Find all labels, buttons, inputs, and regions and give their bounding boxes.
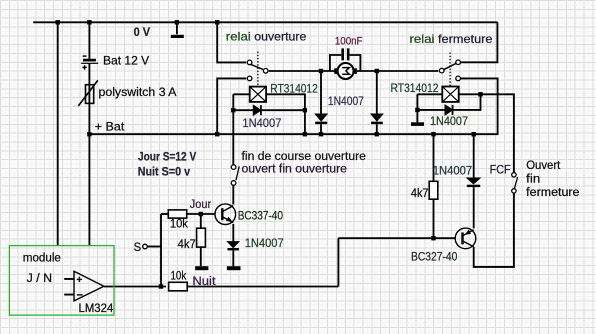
svg-text:RT314012: RT314012	[391, 81, 439, 95]
relay contact fermeture (switch)	[439, 60, 460, 81]
svg-text:Nuit S=0 v: Nuit S=0 v	[138, 165, 191, 179]
junction motor line / diode 1 branch	[319, 69, 323, 73]
junction BC337 base / 4k7	[199, 212, 203, 216]
wire riser to 10k Jour	[161, 213, 168, 215]
svg-text:1N4007: 1N4007	[245, 236, 284, 250]
module box	[9, 246, 114, 316]
svg-text:10k: 10k	[171, 269, 187, 283]
wire Nuit to base riser	[337, 238, 339, 286]
op-amp U1 LM324	[74, 271, 104, 301]
wire right coil left pin to ground	[417, 94, 442, 123]
wire right flyback diode	[417, 94, 480, 110]
battery Bat 12 V	[81, 56, 98, 70]
diode 1N4007 right flyback	[445, 105, 453, 115]
junction +Bat rail / battery branch	[87, 132, 91, 136]
wire right coil right pin to FCF	[459, 94, 514, 172]
polyswitch R (PTC)	[78, 80, 97, 106]
svg-text:relaiouverture: relaiouverture	[226, 30, 307, 44]
wire motor diode 2 to rail	[376, 124, 378, 134]
svg-text:+ Bat: + Bat	[95, 119, 125, 133]
junction +Bat rail / BC327 diode	[472, 132, 476, 136]
wire 4k7 left to ground	[200, 247, 202, 266]
svg-text:10k: 10k	[170, 217, 189, 231]
wire left flyback diode	[233, 109, 305, 111]
svg-text:polyswitch 3 A: polyswitch 3 A	[99, 85, 178, 99]
svg-text:1N4007: 1N4007	[433, 164, 473, 178]
wire 0V top rail	[33, 21, 497, 23]
wire fin de course switch to BC337 collector	[232, 186, 234, 205]
junction motor line / diode 2 branch	[375, 69, 379, 73]
diode 1N4007 BC327	[467, 178, 480, 186]
wire BC337 emitter to diode	[232, 224, 234, 242]
svg-text:−: −	[77, 289, 83, 301]
wire 100nF branch	[330, 55, 361, 71]
wire left coil left pin down through fin de course switch	[233, 94, 249, 164]
dashed actuation line right relay	[449, 53, 451, 87]
wire +Bat to BC327 diode	[473, 134, 475, 178]
relay coil RT314012 left	[250, 87, 266, 102]
svg-text:4k7: 4k7	[178, 237, 196, 251]
terminal S	[143, 244, 148, 249]
svg-text:Ouvert: Ouvert	[526, 158, 561, 172]
junction coil L2 right pin / diode cathode riser	[478, 92, 482, 96]
svg-text:+: +	[77, 275, 83, 286]
wire S to riser	[147, 246, 161, 248]
junction +Bat rail / coil L1 right pin	[303, 132, 307, 136]
svg-text:S: S	[134, 240, 142, 254]
wire +Bat rail	[89, 78, 497, 134]
svg-text:ouvert fin ouverture: ouvert fin ouverture	[242, 162, 348, 176]
junction +Bat rail / NC contact drop	[215, 132, 219, 136]
transistor BC327-40	[455, 228, 476, 249]
ground BC337	[227, 266, 241, 270]
junction BC327 base / 4k7 pullup	[431, 236, 435, 240]
diode 1N4007 left flyback	[253, 105, 261, 115]
junction 0V rail / module pin	[56, 20, 60, 24]
wire 4k7 left drop	[200, 214, 202, 228]
junction 0V rail / relai ouverture feed	[215, 20, 219, 24]
wire motor line (switch pivot to pivot)	[269, 70, 439, 72]
diode 1N4007 motor left	[315, 114, 327, 123]
svg-text:Jour S=12 V: Jour S=12 V	[138, 149, 197, 163]
dashed actuation line left relay	[257, 52, 259, 87]
svg-text:J / N: J / N	[27, 271, 52, 285]
svg-text:LM324: LM324	[79, 301, 114, 315]
wire diode to BC327 emitter	[473, 187, 475, 228]
junction coil L1 left pin / flyback diode anode	[231, 108, 235, 112]
svg-text:Nuit: Nuit	[192, 274, 216, 288]
relay contact ouverture (switch)	[247, 60, 268, 81]
resistor 4k7 left	[197, 228, 206, 247]
junction 0V rail / battery branch	[87, 20, 91, 24]
wire 0V rail to module left pin	[57, 22, 59, 245]
resistor 4k7 right	[429, 181, 438, 199]
wire BC337 diode to ground	[232, 250, 234, 266]
capacitor 100nF	[343, 48, 349, 60]
wire rail to relai ouverture top contact	[217, 22, 246, 62]
junction coil L2 left pin / flyback diode anode	[415, 108, 419, 112]
junction +Bat rail / 4k7 pullup	[431, 132, 435, 136]
relay coil RT314012 right	[442, 87, 458, 102]
switch fin de course ouverture	[231, 165, 239, 186]
transistor BC337-40	[215, 204, 236, 225]
junction +Bat rail / motor diode 2	[375, 132, 379, 136]
svg-text:FCF: FCF	[490, 162, 511, 176]
svg-text:relaifermeture: relaifermeture	[410, 32, 493, 46]
junction 0V rail / ground stub	[175, 20, 179, 24]
resistor 10k Jour	[168, 210, 186, 218]
wire motor diode 1 drop	[320, 71, 322, 114]
ground 4k7 left	[195, 266, 208, 270]
switch ouvert fin fermeture FCF	[512, 173, 518, 193]
svg-text:1N4007: 1N4007	[328, 94, 364, 108]
wire opamp input stubs	[64, 279, 74, 295]
wire relai ouverture bottom contact to +Bat rail	[217, 78, 246, 134]
ground right relay	[411, 122, 424, 126]
wire motor diode 1 to rail	[320, 124, 322, 134]
wire ground stub top	[176, 22, 178, 34]
wire rail to relai fermeture top contact	[460, 22, 497, 62]
svg-text:module: module	[23, 250, 61, 264]
wire motor diode 2 drop	[376, 71, 378, 114]
diode 1N4007 motor right	[371, 114, 383, 123]
wire 4k7 to base node	[433, 199, 435, 238]
svg-text:4k7: 4k7	[411, 186, 429, 200]
wire S riser	[160, 214, 162, 287]
junction opamp out / S riser	[159, 284, 163, 288]
svg-text:BC337-40: BC337-40	[238, 209, 283, 223]
wire 10k Nuit to riser	[187, 286, 338, 288]
svg-text:RT314012: RT314012	[270, 82, 318, 96]
diode 1N4007 BC337 emitter	[228, 242, 239, 250]
svg-text:1N4007: 1N4007	[242, 116, 281, 130]
svg-text:1N4007: 1N4007	[430, 114, 468, 128]
motor M	[334, 63, 357, 79]
svg-text:100nF: 100nF	[335, 35, 363, 47]
wire battery branch top	[88, 22, 90, 59]
svg-text:Bat 12 V: Bat 12 V	[103, 54, 150, 68]
wire battery through polyswitch to +Bat rail and module pin	[88, 63, 90, 245]
wire 4k7 pullup from rail	[433, 134, 435, 181]
svg-text:0 V: 0 V	[134, 27, 151, 39]
svg-text:fermeture: fermeture	[526, 185, 580, 199]
resistor 10k Nuit	[169, 282, 188, 291]
wire opamp out to 10k Nuit	[104, 286, 166, 288]
svg-text:fin: fin	[526, 171, 540, 185]
svg-text:BC327-40: BC327-40	[411, 250, 458, 264]
wire left coil right pin	[266, 94, 305, 134]
wire FCF to BC327 collector	[474, 193, 514, 267]
wire BC327 base	[338, 237, 455, 239]
junction +Bat rail / motor diode 1	[319, 132, 323, 136]
wire 10k Jour to BC337 base	[187, 213, 216, 215]
junction flyback diode cathode / coil right drop	[303, 108, 307, 112]
ground 0V top	[171, 35, 184, 38]
svg-text:Jour: Jour	[190, 197, 211, 211]
